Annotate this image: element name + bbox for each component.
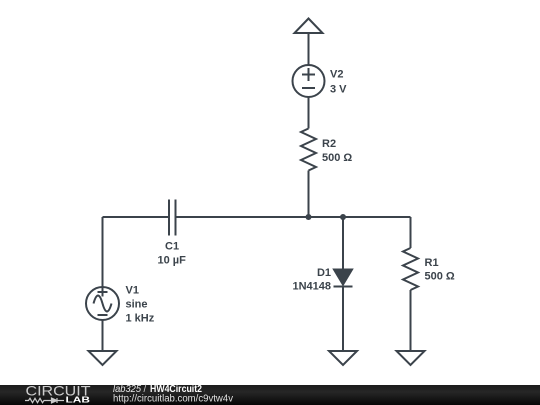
power flag V2 top	[295, 19, 323, 34]
ground (D1)	[329, 351, 357, 365]
svg-text:1 kHz: 1 kHz	[126, 313, 155, 325]
svg-text:http://circuitlab.com/c9vtw4v: http://circuitlab.com/c9vtw4v	[113, 394, 233, 405]
wire right down to R1	[410, 217, 412, 248]
voltage source V1 (sine)	[86, 287, 119, 320]
node junction dots	[306, 214, 312, 220]
resistor R2	[301, 129, 316, 171]
footer bar	[0, 385, 540, 405]
wire V1 to ground	[102, 320, 104, 351]
svg-text:R2: R2	[322, 138, 336, 150]
ground (V1)	[89, 351, 117, 365]
svg-text:3 V: 3 V	[330, 84, 347, 96]
svg-text:LAB: LAB	[66, 396, 91, 405]
svg-text:500 Ω: 500 Ω	[322, 152, 352, 164]
wire flag to V2	[308, 33, 310, 65]
resistor R1	[403, 248, 418, 290]
svg-text:R1: R1	[425, 257, 439, 269]
wire D1 to ground	[342, 287, 344, 352]
svg-text:sine: sine	[126, 299, 148, 311]
footer logo zigzag + diode glyph	[25, 398, 64, 403]
svg-text:500 Ω: 500 Ω	[425, 271, 455, 283]
svg-text:V1: V1	[126, 285, 139, 297]
ground (R1)	[397, 351, 425, 365]
wire capacitor to right	[177, 216, 411, 218]
wire horizontal left (node to capacitor)	[103, 216, 169, 218]
voltage source V2	[293, 65, 325, 97]
svg-text:D1: D1	[317, 267, 331, 279]
svg-text:V2: V2	[330, 69, 343, 81]
svg-text:1N4148: 1N4148	[292, 281, 331, 293]
wire R2 to node	[308, 171, 310, 218]
wire V2 to R2	[308, 97, 310, 129]
svg-text:C1: C1	[165, 241, 179, 253]
wire node to diode D1	[342, 217, 344, 270]
svg-text:10 µF: 10 µF	[158, 255, 187, 267]
wire left down to V1	[102, 217, 104, 287]
capacitor C1	[168, 200, 170, 236]
wire R1 to ground	[410, 290, 412, 351]
diode D1	[334, 270, 352, 285]
